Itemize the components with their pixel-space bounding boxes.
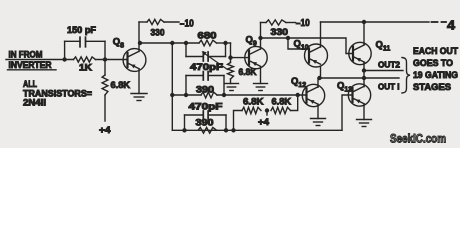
svg-text:Q12: Q12 — [291, 76, 306, 89]
wire drop vertical — [171, 43, 173, 130]
wire Q12 collector up — [317, 78, 319, 87]
wire Q12 emitter down — [317, 104, 319, 118]
node input: IN FROM INVERTER label — [8, 50, 57, 71]
capacitor C4 plates — [203, 111, 208, 120]
node junction drop branch — [170, 41, 174, 45]
node junction cap stub left — [184, 41, 188, 45]
svg-text:Q8: Q8 — [113, 37, 124, 50]
resistor R4 680 — [199, 40, 217, 46]
svg-text:390: 390 — [196, 118, 214, 128]
transistor Q11 — [349, 42, 371, 64]
capacitor C2 470pF trimmer wires — [186, 43, 226, 57]
capacitor C3 plates — [203, 72, 208, 81]
resistor R5 6.8K to ground — [228, 63, 234, 80]
wire down to Q9 base node — [230, 43, 232, 63]
capacitor C4 470pF wires — [185, 115, 227, 130]
wire bottom line y=130.5 — [172, 129, 342, 131]
svg-text:Q11: Q11 — [376, 40, 391, 53]
wire rail to 330 — [139, 21, 147, 23]
node junction cap3 right — [224, 128, 228, 132]
resistor R6 330 — [266, 20, 286, 25]
svg-text:SeekIC.com: SeekIC.com — [390, 134, 446, 146]
svg-text:+4: +4 — [99, 125, 111, 136]
wire Q9 emitter down — [260, 67, 262, 84]
svg-text:1K: 1K — [79, 62, 93, 72]
svg-text:470pF: 470pF — [189, 102, 224, 112]
wire collector node line — [139, 42, 199, 44]
node junction chain/bottom — [231, 128, 235, 132]
ground Q8 emitter — [131, 94, 147, 101]
node junction base/bias — [103, 57, 107, 61]
svg-text:330: 330 — [271, 27, 289, 37]
ground Q13 — [357, 120, 372, 127]
wire to Q10 base — [288, 38, 309, 49]
wire 330b to -10 — [286, 22, 296, 24]
svg-text:150 pF: 150 pF — [67, 25, 97, 35]
transistor Q12 — [302, 84, 324, 106]
wire mid line y=94.5 — [172, 94, 201, 96]
brace — [402, 58, 410, 94]
svg-text:19 GATING: 19 GATING — [413, 70, 458, 80]
resistor R8 390 lower — [198, 127, 217, 133]
wire Q10 collector to top rail — [320, 22, 322, 47]
svg-text:GOES TO: GOES TO — [413, 58, 453, 68]
ground Q9 bias — [225, 84, 239, 91]
node junction on Q9 collector — [258, 36, 262, 40]
node junction Q10 base branch — [286, 36, 290, 40]
wire OUT1 line — [320, 77, 400, 79]
wire Q8 collector up — [138, 22, 140, 52]
transistor Q8 — [123, 49, 146, 72]
wire +4 stub — [266, 111, 268, 116]
svg-text:470pF: 470pF — [190, 62, 224, 72]
wire Q11 collector up — [363, 22, 365, 45]
resistor R2 6.8K vertical bias — [102, 60, 108, 122]
svg-text:INVERTER: INVERTER — [9, 60, 53, 70]
wire Q13 base from bottom line — [342, 95, 353, 130]
node junction OUT2 — [362, 68, 366, 72]
wire dashes continuation — [432, 21, 447, 23]
capacitor C2 plates — [203, 52, 208, 61]
node junction Q12 base — [296, 93, 300, 97]
svg-text:IN FROM: IN FROM — [9, 50, 43, 60]
note EACH OUT GOES TO 19 GATING STAGES — [413, 46, 458, 92]
svg-text:OUT2: OUT2 — [378, 59, 400, 69]
capacitor C1 150pF branch wires — [65, 41, 105, 59]
note ALL TRANSISTORS 2N411 — [23, 79, 92, 108]
wire 680 to corner — [217, 42, 231, 44]
wire Q13 emitter down — [363, 104, 365, 120]
trimmer arrow — [202, 51, 228, 69]
wire top rail right — [321, 21, 430, 23]
node junction at Q8 collector — [138, 41, 142, 45]
svg-text:STAGES: STAGES — [413, 82, 451, 92]
wire Q9 collector to Q11 base — [261, 38, 353, 54]
wire 1K to Q8 base — [96, 59, 128, 61]
wire OUT2 line — [364, 70, 403, 72]
wire base to Q9 — [231, 57, 250, 59]
svg-text:4: 4 — [447, 19, 455, 33]
svg-text:2N4II: 2N4II — [23, 98, 46, 108]
svg-text:6.8K: 6.8K — [272, 97, 292, 107]
wire rail to 330b — [261, 22, 267, 24]
node junction Q13 collector — [362, 76, 366, 80]
node junction cap stub right — [223, 41, 227, 45]
node junction cap3 left — [182, 128, 186, 132]
capacitor C3 470pF wires — [186, 76, 224, 96]
resistor R7 390 — [201, 92, 217, 98]
node junction cap2 left — [184, 93, 188, 97]
resistor R9 6.8K — [271, 107, 291, 113]
node junction cap2 right — [222, 93, 226, 97]
wire Q13 collector up — [363, 78, 365, 87]
transistor Q9 — [245, 46, 267, 68]
capacitor C1 150 pF plates — [80, 37, 86, 47]
resistor R3 330 — [147, 19, 164, 24]
wire chain down — [291, 95, 298, 111]
svg-text:ALL: ALL — [23, 79, 37, 89]
transistor Q13 — [348, 84, 370, 106]
resistor R1 1K — [74, 57, 96, 62]
svg-text:390: 390 — [196, 85, 214, 95]
svg-text:EACH OUT: EACH OUT — [413, 46, 458, 56]
wire input line to 1K — [6, 59, 74, 61]
node junction drop/mid — [170, 93, 174, 97]
svg-text:–10: –10 — [296, 18, 310, 29]
resistor R10 6.8K — [242, 107, 261, 113]
wire Q9 collector up — [260, 23, 262, 50]
wire Q10 emitter down — [320, 67, 322, 78]
svg-text:6.8K: 6.8K — [111, 80, 131, 90]
svg-text:680: 680 — [198, 31, 217, 41]
wire mid line to Q12 — [217, 94, 307, 96]
wire Q11 emitter down — [363, 62, 365, 78]
svg-text:Q9: Q9 — [246, 35, 257, 48]
transistor Q10 — [305, 44, 328, 67]
ground Q12 — [311, 119, 326, 126]
wire Q8 emitter down — [138, 69, 140, 94]
svg-text:OUT I: OUT I — [378, 82, 400, 92]
node junction input/cap — [62, 57, 66, 61]
wire chain left corner — [234, 111, 243, 131]
svg-text:–10: –10 — [180, 19, 194, 30]
node junction Q10 emitter / Q12 collector — [317, 76, 321, 80]
wire 330 to -10 — [164, 21, 179, 23]
svg-text:Q13: Q13 — [337, 81, 352, 94]
svg-text:+4: +4 — [258, 117, 269, 127]
node junction +4 tap — [265, 108, 269, 112]
node junction Q9 base — [228, 55, 232, 59]
ground Q9 emitter — [254, 84, 268, 91]
svg-text:330: 330 — [151, 28, 165, 38]
node junction Q11 collector on rail — [362, 20, 366, 24]
svg-text:6.8K: 6.8K — [243, 97, 264, 107]
